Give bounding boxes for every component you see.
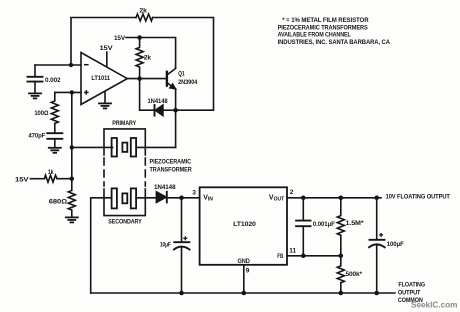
- svg-text:15V: 15V: [100, 45, 114, 52]
- svg-text:100μF: 100μF: [387, 241, 404, 248]
- node 15V junction: [137, 35, 142, 40]
- wire Vout: [287, 197, 381, 199]
- node plus junction: [70, 90, 74, 94]
- node Vin junction: [179, 196, 184, 201]
- transformer shield box: [104, 129, 145, 155]
- wire minus input: [35, 64, 81, 66]
- node Vout junctions: [301, 196, 306, 201]
- svg-text:10μF: 10μF: [160, 242, 171, 249]
- capacitor C2 470pF: [54, 123, 56, 133]
- wire plus input: [55, 91, 81, 93]
- svg-text:2: 2: [290, 189, 294, 196]
- node minus junction: [69, 63, 73, 67]
- svg-text:PRIMARY: PRIMARY: [112, 120, 136, 127]
- svg-text:3: 3: [192, 190, 196, 197]
- svg-text:SECONDARY: SECONDARY: [108, 218, 142, 225]
- wire top rail left: [71, 18, 136, 66]
- svg-text:10V FLOATING OUTPUT: 10V FLOATING OUTPUT: [386, 193, 450, 200]
- capacitor C5 100μF: [376, 198, 378, 240]
- wire primary left: [72, 146, 113, 148]
- wire op-amp output to base: [127, 78, 166, 80]
- wire emitter down to primary: [175, 110, 177, 147]
- svg-text:FLOATING: FLOATING: [398, 282, 425, 289]
- transistor Q1 2N3904: [166, 72, 168, 86]
- ground under 680Ω: [66, 216, 78, 218]
- node bottom rail junctions: [179, 291, 184, 296]
- diode D1 1N4148: [155, 105, 163, 116]
- svg-text:PIEZOCERAMIC TRANSFORMERS: PIEZOCERAMIC TRANSFORMERS: [278, 24, 369, 31]
- IC U2 LT1020 box: [200, 187, 287, 264]
- wire 15V to 1k: [31, 178, 45, 180]
- svg-text:680Ω: 680Ω: [49, 199, 67, 206]
- svg-text:9: 9: [246, 268, 250, 275]
- svg-text:VOUT: VOUT: [269, 194, 284, 202]
- wire secondary right: [136, 197, 156, 199]
- label 15V op-amp supply wire: [106, 52, 108, 66]
- ground op-amp: [104, 92, 106, 103]
- capacitor C3 10μF: [181, 198, 183, 242]
- svg-text:470pF: 470pF: [28, 133, 45, 140]
- resistor R5 1.5M: [337, 198, 344, 256]
- svg-text:1.5M*: 1.5M*: [346, 220, 365, 227]
- svg-text:VIN: VIN: [203, 194, 213, 202]
- svg-text:15V: 15V: [114, 35, 126, 42]
- capacitor C4 0.001μF: [302, 198, 304, 221]
- wire top rail right: [153, 18, 214, 111]
- svg-text:GND: GND: [238, 258, 251, 265]
- svg-text:100Ω: 100Ω: [34, 110, 48, 117]
- resistor R1 2k (top feedback): [136, 14, 153, 21]
- svg-text:AVAILABLE FROM CHANNEL: AVAILABLE FROM CHANNEL: [278, 32, 351, 39]
- svg-text:TRANSFORMER: TRANSFORMER: [150, 167, 193, 174]
- svg-text:SeekIC.com: SeekIC.com: [411, 299, 457, 309]
- svg-text:LT1011: LT1011: [91, 75, 110, 82]
- svg-text:INDUSTRIES, INC. SANTA BARBARA: INDUSTRIES, INC. SANTA BARBARA, CA: [278, 39, 391, 46]
- svg-text:0.002: 0.002: [45, 77, 61, 84]
- svg-text:1k: 1k: [48, 169, 54, 176]
- capacitor C1 0.002: [34, 65, 36, 77]
- wire secondary left: [91, 198, 112, 293]
- label plus input: [84, 91, 89, 93]
- wire 1k to junction: [57, 178, 72, 180]
- svg-text:* = 1% METAL FILM RESISTOR: * = 1% METAL FILM RESISTOR: [282, 17, 369, 24]
- resistor R4 680Ω: [68, 179, 75, 217]
- wire diode to Vin: [167, 197, 200, 199]
- label minus input: [84, 64, 89, 66]
- node output junction: [137, 76, 142, 81]
- svg-text:PIEZOCERAMIC: PIEZOCERAMIC: [150, 158, 192, 165]
- label plus 100μF: [379, 234, 383, 236]
- svg-text:11: 11: [289, 248, 296, 255]
- ground under C2: [49, 147, 61, 149]
- op-amp U1 LT1011: [81, 53, 127, 105]
- svg-text:Q1: Q1: [178, 70, 185, 77]
- resistor R2 100Ω: [51, 92, 58, 123]
- svg-text:2k: 2k: [144, 54, 152, 61]
- wire primary right: [136, 146, 176, 148]
- svg-text:15V: 15V: [15, 176, 30, 183]
- piezo primary element: [112, 138, 117, 157]
- wire output down to diode: [140, 79, 154, 111]
- ground under C1: [29, 92, 41, 94]
- wire GND pin drop: [243, 265, 245, 293]
- svg-text:LT1020: LT1020: [233, 221, 256, 228]
- wire 15V collector rail: [126, 38, 176, 68]
- label plus 10μF: [183, 237, 187, 239]
- svg-text:2k: 2k: [139, 8, 147, 15]
- wire FB: [287, 255, 341, 257]
- node 1k junction: [70, 177, 74, 181]
- svg-text:0.001μF: 0.001μF: [313, 221, 335, 228]
- node emitter junction: [173, 108, 178, 113]
- resistor R3 1k: [44, 175, 57, 182]
- node primary tap: [70, 145, 74, 149]
- wire bottom rail: [91, 292, 395, 294]
- svg-text:500k*: 500k*: [346, 271, 363, 278]
- resistor R6 500k: [337, 256, 344, 293]
- resistor R7 2k (base pullup): [136, 38, 143, 79]
- node FB junctions: [301, 254, 306, 259]
- diode D2 1N4148: [156, 192, 166, 203]
- svg-text:1N4148: 1N4148: [148, 98, 169, 105]
- piezo secondary element: [112, 188, 117, 208]
- svg-text:1N4148: 1N4148: [154, 184, 176, 191]
- svg-text:2N3904: 2N3904: [178, 79, 198, 86]
- wire diode to emitter junction: [163, 109, 176, 111]
- svg-text:OUTPUT: OUTPUT: [398, 289, 421, 296]
- svg-text:FB: FB: [277, 253, 283, 260]
- wire vertical from plus junction: [71, 92, 73, 178]
